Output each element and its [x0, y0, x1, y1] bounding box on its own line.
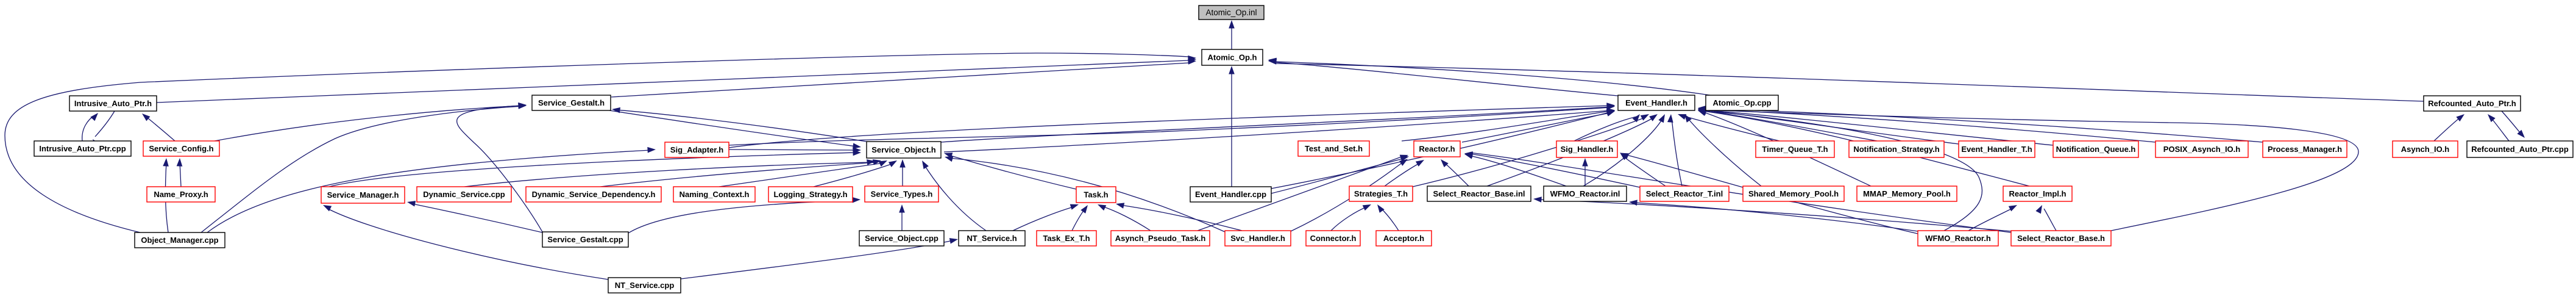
edge Refcounted_Auto_Ptr.h to Atomic_Op.h	[1268, 59, 2424, 101]
edge Process_Manager.h to Event_Handler.h	[1698, 106, 2263, 142]
svg-text:Sig_Adapter.h: Sig_Adapter.h	[670, 145, 723, 154]
node Object_Manager.cpp	[135, 232, 225, 248]
edge Notification_Queue.h to Event_Handler.h	[1698, 107, 2053, 145]
node Sig_Adapter.h	[665, 142, 729, 157]
node Refcounted_Auto_Ptr.cpp	[2467, 141, 2573, 157]
svg-text:Service_Object.cpp: Service_Object.cpp	[865, 234, 939, 243]
edge NT_Service.h to Task.h	[1013, 204, 1079, 231]
edge Select_Reactor_T.inl to Reactor.h	[1464, 152, 1640, 187]
edge Select_Reactor_T.inl to Event_Handler.h	[1667, 114, 1682, 186]
node Atomic_Op.cpp	[1706, 95, 1778, 110]
node Select_Reactor_Base.h	[2011, 231, 2111, 246]
svg-text:Atomic_Op.inl: Atomic_Op.inl	[1205, 8, 1257, 17]
node Shared_Memory_Pool.h	[1743, 186, 1844, 201]
node Service_Gestalt.h	[532, 95, 611, 110]
svg-text:NT_Service.cpp: NT_Service.cpp	[615, 281, 675, 290]
edge Test_and_Set.h to Event_Handler.h	[1402, 109, 1615, 141]
node Asynch_IO.h	[2393, 141, 2458, 157]
svg-text:Service_Gestalt.cpp: Service_Gestalt.cpp	[547, 235, 623, 244]
edge Object_Manager.cpp to Atomic_Op.h	[5, 53, 1196, 232]
edge Logging_Strategy.h to Service_Object.h	[814, 160, 897, 187]
edge Sig_Adapter.h to Service_Object.h	[729, 147, 861, 153]
svg-text:Task_Ex_T.h: Task_Ex_T.h	[1043, 234, 1090, 243]
node Service_Types.h	[865, 186, 939, 202]
edge Select_Reactor_Base.inl to Event_Handler.h	[1487, 114, 1658, 186]
edge Service_Gestalt.cpp to Service_Gestalt.h	[457, 103, 542, 232]
edge Dynamic_Service_Dependency.h to Service_Object.h	[600, 159, 881, 187]
node Name_Proxy.h	[147, 187, 215, 202]
edge Service_Gestalt.cpp to Service_Manager.h	[407, 201, 542, 232]
edge Connector.h to Strategies_T.h	[1331, 204, 1371, 231]
svg-text:Process_Manager.h: Process_Manager.h	[2268, 145, 2342, 154]
node Atomic_Op.h	[1202, 49, 1263, 65]
svg-text:Event_Handler.h: Event_Handler.h	[1625, 98, 1687, 107]
edge Naming_Context.h to Service_Object.h	[719, 160, 887, 187]
edge Select_Reactor_Base.h to Event_Handler.h	[1698, 107, 2358, 231]
node Service_Gestalt.cpp	[542, 232, 628, 247]
svg-text:Service_Object.h: Service_Object.h	[871, 145, 936, 154]
svg-text:Event_Handler_T.h: Event_Handler_T.h	[1961, 145, 2032, 154]
edge Service_Object.h to Service_Gestalt.h	[612, 107, 867, 142]
svg-text:Reactor.h: Reactor.h	[1419, 145, 1455, 154]
edge Strategies_T.h to Reactor.h	[1385, 160, 1424, 186]
node Task_Ex_T.h	[1037, 231, 1096, 246]
edge Intrusive_Auto_Ptr.h to Intrusive_Auto_Ptr.cpp	[93, 111, 115, 148]
edge Service_Manager.h to Service_Object.h	[329, 150, 861, 187]
svg-text:Service_Gestalt.h: Service_Gestalt.h	[538, 98, 605, 107]
node Dynamic_Service.cpp	[417, 187, 511, 202]
node Event_Handler_T.h	[1959, 141, 2035, 157]
edge Intrusive_Auto_Ptr.cpp to Intrusive_Auto_Ptr.h	[82, 113, 98, 141]
svg-text:Timer_Queue_T.h: Timer_Queue_T.h	[1762, 145, 1828, 154]
svg-text:Intrusive_Auto_Ptr.cpp: Intrusive_Auto_Ptr.cpp	[39, 144, 126, 153]
edge NT_Service.cpp to Service_Manager.h	[323, 205, 608, 279]
edge Event_Handler.cpp to Reactor.h	[1271, 156, 1409, 193]
node Sig_Handler.h	[1556, 141, 1617, 157]
svg-text:Strategies_T.h: Strategies_T.h	[1354, 189, 1408, 198]
edge Object_Manager.cpp to Service_Gestalt.h	[201, 103, 527, 232]
edge Event_Handler.h to Atomic_Op.h	[1268, 59, 1618, 96]
wire Service_Object.h to Event_Handler.h lower	[944, 108, 1615, 152]
node Reactor.h	[1414, 141, 1460, 157]
edge WFMO_Reactor.h to Sig_Handler.h	[1620, 153, 1918, 234]
edge WFMO_Reactor.h to WFMO_Reactor.inl	[1629, 200, 1918, 231]
svg-text:Reactor_Impl.h: Reactor_Impl.h	[2009, 189, 2067, 198]
svg-text:Asynch_Pseudo_Task.h: Asynch_Pseudo_Task.h	[1115, 234, 1206, 243]
edge Acceptor.h to Strategies_T.h	[1377, 204, 1399, 231]
edge POSIX_Asynch_IO.h to Event_Handler.h	[1698, 106, 2156, 142]
edge Object_Manager.cpp to Sig_Adapter.h	[207, 147, 656, 232]
edge Atomic_Op.h to Atomic_Op.inl	[1229, 20, 1235, 49]
edge NT_Service.cpp to NT_Service.h	[681, 238, 958, 279]
edge WFMO_Reactor.inl to Event_Handler.h	[1583, 114, 1665, 186]
node Reactor_Impl.h	[2003, 186, 2072, 201]
edge Timer_Queue_T.h to Event_Handler.h	[1678, 114, 1779, 141]
svg-text:Task.h: Task.h	[1084, 190, 1108, 200]
edge WFMO_Reactor.inl to Reactor.h	[1464, 153, 1566, 186]
svg-text:Service_Manager.h: Service_Manager.h	[327, 190, 399, 200]
svg-text:Dynamic_Service_Dependency.h: Dynamic_Service_Dependency.h	[532, 190, 656, 199]
node Naming_Context.h	[673, 187, 755, 202]
svg-text:Svc_Handler.h: Svc_Handler.h	[1230, 234, 1285, 243]
edge Service_Gestalt.h to Atomic_Op.h	[611, 59, 1196, 97]
edge Select_Reactor_Base.h to Select_Reactor_Base.inl	[1533, 196, 2011, 231]
svg-text:NT_Service.h: NT_Service.h	[967, 234, 1017, 243]
node POSIX_Asynch_IO.h	[2156, 141, 2248, 157]
svg-text:Select_Reactor_Base.h: Select_Reactor_Base.h	[2017, 234, 2105, 243]
edge Service_Gestalt.cpp to Service_Types.h	[628, 197, 860, 233]
svg-text:Dynamic_Service.cpp: Dynamic_Service.cpp	[423, 190, 505, 199]
node Test_and_Set.h	[1298, 141, 1369, 156]
svg-text:Intrusive_Auto_Ptr.h: Intrusive_Auto_Ptr.h	[74, 99, 152, 108]
node NT_Service.cpp	[608, 278, 681, 293]
edge Service_Config.h to Service_Gestalt.h	[215, 103, 527, 141]
node Asynch_Pseudo_Task.h	[1111, 231, 1210, 246]
edge MMAP_Memory_Pool.h to Event_Handler.h	[1698, 110, 1871, 186]
node NT_Service.h	[959, 231, 1025, 246]
edge Service_Gestalt.h to Service_Object.h	[609, 110, 861, 149]
edge Svc_Handler.h to Reactor.h	[1291, 159, 1408, 232]
edge Svc_Handler.h to Service_Object.h	[945, 156, 1225, 232]
svg-text:WFMO_Reactor.inl: WFMO_Reactor.inl	[1550, 189, 1620, 198]
edge Service_Config.h to Intrusive_Auto_Ptr.h	[142, 113, 175, 141]
node WFMO_Reactor.inl	[1544, 186, 1627, 201]
node Service_Manager.h	[321, 187, 405, 203]
svg-text:Object_Manager.cpp: Object_Manager.cpp	[141, 236, 218, 245]
node Service_Object.cpp	[859, 231, 944, 246]
edge Notification_Strategy.h to Event_Handler.h	[1698, 109, 1877, 141]
edge NT_Service.h to Service_Object.h	[922, 160, 986, 231]
edge Select_Reactor_T.inl to Sig_Handler.h	[1620, 153, 1666, 186]
node Notification_Queue.h	[2053, 141, 2138, 157]
edge Refcounted_Auto_Ptr.cpp to Refcounted_Auto_Ptr.h	[2488, 114, 2509, 141]
edge Asynch_Pseudo_Task.h to Reactor.h	[1198, 155, 1408, 231]
node Strategies_T.h	[1349, 186, 1413, 201]
svg-text:Atomic_Op.h: Atomic_Op.h	[1208, 53, 1257, 62]
edge Select_Reactor_Base.h to Reactor.h	[1464, 151, 2011, 232]
edge WFMO_Reactor.h to Event_Handler.h	[1698, 109, 1982, 231]
edge Svc_Handler.h to Task.h	[1116, 203, 1242, 231]
node Process_Manager.h	[2263, 141, 2347, 157]
node WFMO_Reactor.h	[1918, 231, 1998, 246]
node Acceptor.h	[1376, 231, 1432, 246]
edge Dynamic_Service.cpp to Service_Object.h	[464, 159, 875, 187]
svg-text:POSIX_Asynch_IO.h: POSIX_Asynch_IO.h	[2163, 145, 2240, 154]
edge Object_Manager.cpp to Service_Config.h	[163, 158, 169, 232]
edge Atomic_Op.cpp to Atomic_Op.h	[1268, 58, 1710, 95]
svg-text:Connector.h: Connector.h	[1310, 234, 1357, 243]
edge Shared_Memory_Pool.h to Event_Handler.h	[1684, 114, 1761, 186]
edge Sig_Handler.h to Event_Handler.h	[1574, 114, 1640, 141]
node Timer_Queue_T.h	[1756, 141, 1834, 157]
node Connector.h	[1306, 231, 1360, 246]
edge Service_Types.h to Service_Object.h	[899, 159, 906, 186]
node Intrusive_Auto_Ptr.cpp	[34, 141, 131, 156]
edge Task.h to Service_Object.h	[944, 153, 1076, 189]
node Service_Config.h	[143, 141, 219, 156]
svg-text:Refcounted_Auto_Ptr.h: Refcounted_Auto_Ptr.h	[2428, 99, 2516, 108]
edge Reactor.h to Event_Handler.h	[1462, 111, 1615, 142]
edge Strategies_T.h to Event_Handler.h	[1413, 114, 1649, 187]
edge Intrusive_Auto_Ptr.h to Atomic_Op.h	[157, 57, 1196, 103]
node Svc_Handler.h	[1225, 231, 1291, 246]
edge Event_Handler.cpp to Atomic_Op.h	[1229, 66, 1235, 187]
node Select_Reactor_Base.inl	[1427, 186, 1531, 201]
node MMAP_Memory_Pool.h	[1857, 186, 1957, 201]
edge Event_Handler_T.h to Event_Handler.h	[1698, 107, 1959, 144]
edge Reactor_Impl.h to Event_Handler.h	[1698, 109, 2029, 186]
svg-text:Shared_Memory_Pool.h: Shared_Memory_Pool.h	[1748, 189, 1839, 198]
svg-text:Service_Config.h: Service_Config.h	[149, 144, 213, 153]
svg-text:Acceptor.h: Acceptor.h	[1383, 234, 1424, 243]
svg-text:Test_and_Set.h: Test_and_Set.h	[1305, 144, 1363, 153]
svg-text:Select_Reactor_Base.inl: Select_Reactor_Base.inl	[1433, 189, 1525, 198]
edge WFMO_Reactor.inl to Sig_Handler.h	[1582, 158, 1588, 186]
svg-text:Notification_Strategy.h: Notification_Strategy.h	[1853, 145, 1939, 154]
svg-text:Sig_Handler.h: Sig_Handler.h	[1561, 145, 1614, 154]
edge WFMO_Reactor.h to Reactor_Impl.h	[1968, 205, 2017, 231]
node Event_Handler.h	[1618, 95, 1695, 110]
svg-text:Naming_Context.h: Naming_Context.h	[679, 190, 750, 199]
node Dynamic_Service_Dependency.h	[526, 187, 661, 202]
edge Refcounted_Auto_Ptr.h to Refcounted_Auto_Ptr.cpp	[2502, 111, 2525, 138]
svg-text:Atomic_Op.cpp: Atomic_Op.cpp	[1712, 98, 1771, 107]
svg-text:Logging_Strategy.h: Logging_Strategy.h	[773, 190, 847, 199]
node Select_Reactor_T.inl	[1640, 186, 1729, 201]
svg-text:MMAP_Memory_Pool.h: MMAP_Memory_Pool.h	[1863, 189, 1951, 198]
svg-text:Asynch_IO.h: Asynch_IO.h	[2401, 145, 2450, 154]
edge Select_Reactor_Base.h to Reactor_Impl.h	[2035, 205, 2056, 231]
edge Event_Handler.cpp to Event_Handler.h	[1271, 110, 1615, 189]
node Task.h	[1076, 187, 1116, 203]
edge Task_Ex_T.h to Task.h	[1072, 205, 1088, 231]
svg-text:Service_Types.h: Service_Types.h	[871, 190, 933, 199]
edge Asynch_Pseudo_Task.h to Task.h	[1098, 204, 1151, 231]
svg-text:Notification_Queue.h: Notification_Queue.h	[2056, 145, 2136, 154]
svg-text:Refcounted_Auto_Ptr.cpp: Refcounted_Auto_Ptr.cpp	[2471, 145, 2569, 154]
node Event_Handler.cpp	[1190, 187, 1271, 202]
node Service_Object.h	[867, 142, 941, 158]
svg-text:Select_Reactor_T.inl: Select_Reactor_T.inl	[1646, 189, 1723, 198]
node Refcounted_Auto_Ptr.h	[2424, 96, 2521, 111]
svg-text:WFMO_Reactor.h: WFMO_Reactor.h	[1925, 234, 1991, 243]
edge Asynch_IO.h to Refcounted_Auto_Ptr.h	[2434, 114, 2464, 141]
edge Service_Object.h to Event_Handler.h	[941, 103, 1615, 142]
edge Service_Object.cpp to Service_Types.h	[899, 204, 905, 231]
node Notification_Strategy.h	[1849, 141, 1944, 157]
svg-text:Event_Handler.cpp: Event_Handler.cpp	[1195, 190, 1266, 199]
node Intrusive_Auto_Ptr.h	[69, 96, 157, 111]
svg-text:Name_Proxy.h: Name_Proxy.h	[154, 190, 208, 199]
edge Sig_Adapter.h to Event_Handler.h	[729, 103, 1615, 148]
edge Name_Proxy.h to Service_Config.h	[177, 158, 183, 187]
edge Select_Reactor_Base.inl to Reactor.h	[1441, 159, 1469, 186]
node Logging_Strategy.h	[768, 187, 853, 202]
wire Sig_Adapter.h to Event_Handler.h lower	[729, 104, 1615, 145]
node Atomic_Op.inl	[1199, 5, 1264, 20]
